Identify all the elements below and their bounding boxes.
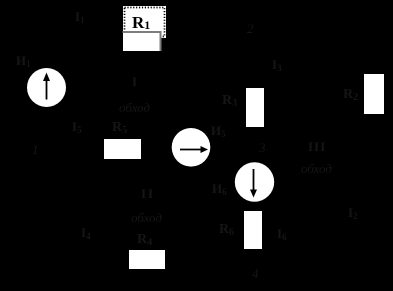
svg-text:I: I	[132, 74, 137, 89]
resistor R3 body (vertical)	[246, 88, 264, 127]
svg-text:III: III	[308, 139, 326, 154]
svg-text:обход: обход	[119, 100, 150, 115]
resistor R5 body (left middle, horizontal)	[104, 139, 141, 159]
resistor R2 body (vertical)	[364, 74, 384, 114]
resistor R4 body (bottom, horizontal)	[129, 250, 165, 269]
svg-text:2: 2	[247, 21, 254, 36]
current source J1 circle (up arrow)	[27, 68, 66, 107]
svg-text:II: II	[141, 186, 155, 201]
svg-text:обход: обход	[131, 210, 162, 225]
current source J5 circle (right arrow)	[172, 128, 211, 167]
resistor R1 body	[123, 31, 161, 51]
R1 selection label box (white, dotted border)	[123, 6, 166, 38]
svg-text:обход: обход	[301, 161, 332, 176]
svg-text:3: 3	[258, 140, 266, 155]
svg-text:1: 1	[32, 142, 39, 157]
resistor R6 body (vertical)	[244, 211, 262, 249]
svg-text:4: 4	[252, 266, 259, 281]
current source J6 circle (down arrow)	[235, 162, 274, 201]
